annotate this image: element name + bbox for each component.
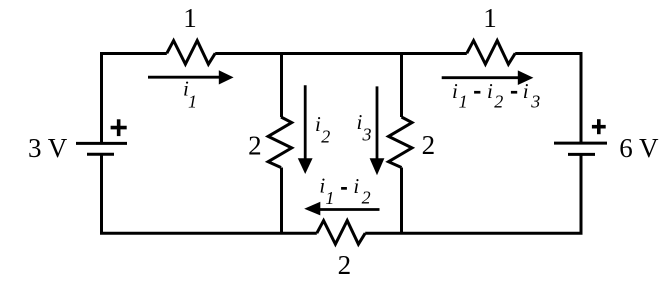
wire top-right segment + right side bbox=[515, 54, 581, 144]
current label i3 bbox=[357, 110, 372, 145]
svg-text:1: 1 bbox=[183, 3, 197, 33]
current label i1 - i2 bbox=[319, 173, 370, 208]
svg-text:3: 3 bbox=[362, 125, 372, 145]
resistor R2 (top right) bbox=[467, 41, 515, 65]
current arrow i1-i2 bbox=[304, 202, 379, 216]
svg-text:i: i bbox=[487, 79, 493, 103]
resistor R4 (middle right, vertical) bbox=[389, 117, 413, 168]
svg-text:2: 2 bbox=[494, 92, 503, 112]
svg-text:3 V: 3 V bbox=[28, 133, 68, 163]
svg-text:i: i bbox=[452, 79, 458, 103]
current label i1 - i2 - i3 bbox=[452, 79, 540, 111]
battery V2 plates (6 V source) bbox=[554, 143, 607, 154]
wire middle-left branch lower bbox=[280, 168, 283, 234]
svg-text:1: 1 bbox=[188, 92, 197, 112]
svg-text:2: 2 bbox=[422, 130, 436, 160]
resistor R1 (top left) bbox=[167, 41, 215, 65]
current label i2 bbox=[315, 112, 330, 147]
current label i1 bbox=[183, 77, 197, 112]
svg-text:3: 3 bbox=[530, 92, 540, 112]
svg-text:6 V: 6 V bbox=[619, 133, 659, 163]
svg-text:2: 2 bbox=[321, 126, 330, 146]
svg-text:i: i bbox=[315, 112, 321, 136]
svg-text:1: 1 bbox=[325, 188, 334, 208]
resistor R5 (bottom) bbox=[317, 221, 365, 245]
svg-text:i: i bbox=[523, 79, 529, 103]
svg-text:i: i bbox=[353, 174, 359, 198]
plus sign V1 bbox=[111, 119, 127, 136]
svg-text:2: 2 bbox=[338, 250, 352, 280]
svg-text:1: 1 bbox=[459, 92, 468, 112]
current arrow i1-i2-i3 bbox=[442, 70, 534, 85]
current arrow i2 bbox=[298, 85, 313, 174]
wire bottom-right segment bbox=[365, 154, 581, 233]
plus sign V2 bbox=[592, 119, 606, 134]
wire left side + top-left segment bbox=[102, 54, 167, 144]
wire middle-right branch upper bbox=[400, 54, 403, 118]
current arrow i1 bbox=[148, 70, 234, 84]
svg-text:1: 1 bbox=[483, 3, 497, 33]
battery V1 plates (3 V source) bbox=[76, 143, 127, 154]
current arrow i3 bbox=[370, 86, 385, 175]
wire top middle segment bbox=[215, 52, 467, 55]
wire middle-right branch lower bbox=[400, 168, 403, 234]
resistor R3 (middle left, vertical) bbox=[268, 117, 292, 168]
wire middle-left branch upper bbox=[280, 54, 283, 118]
svg-text:2: 2 bbox=[248, 131, 262, 161]
wire bottom-left segment bbox=[102, 154, 317, 233]
svg-text:2: 2 bbox=[362, 187, 371, 207]
